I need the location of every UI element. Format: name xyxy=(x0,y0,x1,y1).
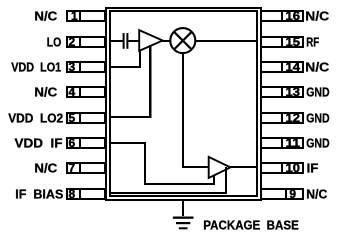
wire IF output to pin 10 xyxy=(230,166,258,168)
wire LO input from pin 2 xyxy=(109,40,123,42)
wire IF BIAS vertical xyxy=(225,167,227,193)
pin 4 box xyxy=(67,85,105,99)
svg-text:GND: GND xyxy=(306,111,329,125)
pin 13 box xyxy=(261,85,303,99)
ground bar 3 xyxy=(179,227,188,229)
svg-text:12: 12 xyxy=(286,111,301,125)
svg-text:15: 15 xyxy=(286,35,301,49)
pin 6 box xyxy=(67,136,105,150)
pin 14 box xyxy=(261,60,303,74)
pin 8 box xyxy=(67,187,105,201)
IC package outer body xyxy=(105,7,262,201)
svg-text:10: 10 xyxy=(286,161,301,175)
svg-text:N/C: N/C xyxy=(306,187,327,201)
svg-text:2: 2 xyxy=(68,35,75,49)
ground stem xyxy=(182,200,184,216)
wire to IF amp input xyxy=(182,166,210,168)
IC package inner body xyxy=(109,10,258,197)
wire mixer to RF pin 15 xyxy=(196,40,258,42)
pin 7 box xyxy=(67,161,105,175)
wire VDD IF pin 6 horizontal xyxy=(109,142,146,144)
svg-text:5: 5 xyxy=(68,111,75,125)
pin 2 box xyxy=(67,35,105,49)
svg-text:6: 6 xyxy=(68,136,75,150)
wire VDD IF vertical down xyxy=(144,142,146,184)
wire VDD LO1 vertical to LO amp xyxy=(139,50,141,67)
svg-text:N/C: N/C xyxy=(34,9,57,23)
svg-text:LO: LO xyxy=(47,35,62,49)
svg-text:GND: GND xyxy=(306,85,329,99)
pin 16 box xyxy=(261,9,303,23)
ground bar 2 xyxy=(176,222,190,224)
svg-text:PACKAGE BASE: PACKAGE BASE xyxy=(203,219,298,233)
svg-text:IF: IF xyxy=(307,161,319,175)
pin 1 box xyxy=(67,9,105,23)
ground bar 1 xyxy=(173,217,194,219)
wire VDD IF horizontal to IF amp xyxy=(144,183,215,185)
svg-text:13: 13 xyxy=(286,85,301,99)
svg-text:N/C: N/C xyxy=(34,161,57,175)
svg-text:N/C: N/C xyxy=(305,60,329,74)
wire VDD LO2 vertical to LO amp xyxy=(149,45,152,117)
pin 10 box xyxy=(261,161,303,175)
svg-text:14: 14 xyxy=(286,60,301,74)
wire VDD LO1 pin 3 horizontal xyxy=(109,66,141,68)
svg-text:N/C: N/C xyxy=(305,9,329,23)
mixer U2 xyxy=(170,28,195,53)
svg-text:VDD LO1: VDD LO1 xyxy=(11,60,61,74)
op-amp U3 IF amplifier xyxy=(209,157,231,178)
pin 11 box xyxy=(261,136,303,150)
svg-text:9: 9 xyxy=(289,187,296,201)
svg-text:11: 11 xyxy=(286,136,301,150)
svg-text:16: 16 xyxy=(286,9,301,23)
svg-text:N/C: N/C xyxy=(34,85,57,99)
pin 15 box xyxy=(261,35,303,49)
wire IF BIAS pin 8 horizontal xyxy=(109,192,227,194)
pin 5 box xyxy=(67,111,105,125)
pin 12 box xyxy=(261,111,303,125)
wire LO amp to mixer xyxy=(162,40,171,42)
svg-text:VDD IF: VDD IF xyxy=(15,136,63,150)
pin 3 box xyxy=(67,60,105,74)
wire mixer output down xyxy=(182,53,184,167)
svg-text:IF BIAS: IF BIAS xyxy=(15,187,63,201)
capacitor C1 plate 2 xyxy=(126,33,128,49)
wire VDD LO2 pin 5 horizontal xyxy=(109,116,152,118)
svg-text:VDD LO2: VDD LO2 xyxy=(8,111,63,125)
svg-text:7: 7 xyxy=(68,161,75,175)
svg-text:RF: RF xyxy=(306,35,319,49)
svg-text:4: 4 xyxy=(68,85,75,99)
capacitor C1 plate 1 xyxy=(123,33,125,49)
svg-text:3: 3 xyxy=(68,60,75,74)
svg-text:8: 8 xyxy=(68,187,75,201)
pin 9 box xyxy=(261,187,303,201)
op-amp U1 LO amplifier xyxy=(139,30,162,51)
svg-text:1: 1 xyxy=(71,9,78,23)
wire VDD IF vertical into IF amp xyxy=(213,175,215,185)
svg-text:GND: GND xyxy=(306,136,329,150)
wire capacitor to LO amp xyxy=(128,40,140,42)
